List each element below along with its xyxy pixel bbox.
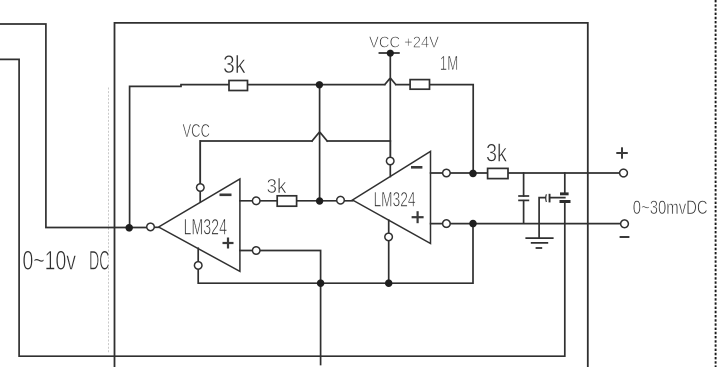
wire VCC rail right <box>327 140 390 142</box>
op-amp U1 minus sign <box>220 194 232 197</box>
op-amp U1 V+ pin circle <box>197 184 205 192</box>
resistor R2 1M <box>410 80 429 90</box>
op-amp U2 inverting output pin circle <box>443 169 451 177</box>
op-amp U1 inverting output pin circle <box>252 197 260 205</box>
wire op1 top power pin <box>199 141 201 202</box>
op-amp U1 triangle <box>159 179 240 271</box>
junction node feedback top <box>316 81 323 88</box>
op-amp U2 non-inverting output pin circle <box>443 220 451 228</box>
op-amp U2 triangle <box>353 151 431 243</box>
svg-text:LM324: LM324 <box>184 215 228 240</box>
capacitor C3 top lead <box>564 173 566 192</box>
dashed border right edge <box>715 0 717 367</box>
dotted artifact line left of box <box>108 88 110 352</box>
svg-text:LM324: LM324 <box>374 189 416 212</box>
op-amp U2 V- pin circle <box>385 233 393 241</box>
wire VCC terminal bar <box>379 52 399 54</box>
op-amp U1 V- pin circle <box>194 262 202 270</box>
junction node common rail left <box>317 279 325 287</box>
op-amp U2 plus sign <box>412 211 424 223</box>
capacitor C2 plates <box>546 194 551 203</box>
ground <box>525 238 553 248</box>
wire ground rail <box>198 224 473 284</box>
capacitor C1 plates <box>518 196 529 200</box>
resistor R3 3k <box>277 196 296 206</box>
wire VCC +24V vertical <box>389 53 391 157</box>
svg-text:0~30mvDC: 0~30mvDC <box>633 197 708 219</box>
output plus sign <box>616 147 628 158</box>
wire ground branch <box>539 198 545 239</box>
junction node common rail right <box>385 279 393 287</box>
svg-text:DC: DC <box>89 246 110 276</box>
wire capacitor C2 to C3 lead <box>551 197 565 199</box>
op-amp U2 V+ pin circle <box>386 157 394 165</box>
op-amp U2 input pin circle <box>337 196 345 204</box>
svg-text:VCC +24V: VCC +24V <box>369 35 439 52</box>
svg-text:0~10v: 0~10v <box>23 246 77 276</box>
op-amp U1 plus sign <box>223 238 234 249</box>
wire 1M to output node <box>396 85 473 174</box>
output terminal - circle <box>621 220 629 228</box>
output minus sign <box>620 236 630 238</box>
svg-text:1M: 1M <box>440 53 459 75</box>
wire op1 plus output down to rail <box>240 251 321 284</box>
wire op2 minus output <box>431 172 620 174</box>
junction node U2 input <box>316 197 323 204</box>
op-amp U1 non-inverting output pin circle <box>252 247 260 255</box>
wire op1 input stub <box>154 226 158 228</box>
output terminal + circle <box>620 169 628 177</box>
op-amp U2 minus sign <box>411 166 422 169</box>
wire op2 plus output <box>431 223 621 225</box>
outer box <box>115 23 588 367</box>
wire feedback top 3k/1M rail <box>130 85 385 228</box>
wire hop over node vertical <box>312 132 327 141</box>
wire VCC rail <box>200 141 312 184</box>
wire input top 0~10v <box>0 24 147 228</box>
svg-text:3k: 3k <box>267 176 288 198</box>
op-amp U1 input pin circle <box>147 223 155 231</box>
wire stub below rail <box>320 283 322 364</box>
junction node VCC +24V terminal <box>387 50 394 57</box>
wire op2 top power pin <box>389 141 391 177</box>
svg-text:3k: 3k <box>486 140 507 168</box>
junction node input <box>125 224 133 232</box>
resistor R1 3k <box>229 81 248 91</box>
wire hop over VCC vertical <box>385 78 396 85</box>
wire op1 minus output to op2 input <box>240 200 353 202</box>
resistor R4 3k <box>488 168 508 178</box>
wire node vertical x=319.6 <box>319 85 321 201</box>
wire op2 bottom power pin <box>388 220 390 283</box>
svg-text:3k: 3k <box>223 51 246 79</box>
svg-text:VCC: VCC <box>183 121 211 141</box>
capacitor C3 polarized plates <box>560 192 571 203</box>
capacitor C1 leads <box>523 173 525 196</box>
junction node 1M feedback output <box>469 170 477 178</box>
wire input return bottom <box>0 59 565 356</box>
junction node plus output <box>469 220 477 228</box>
